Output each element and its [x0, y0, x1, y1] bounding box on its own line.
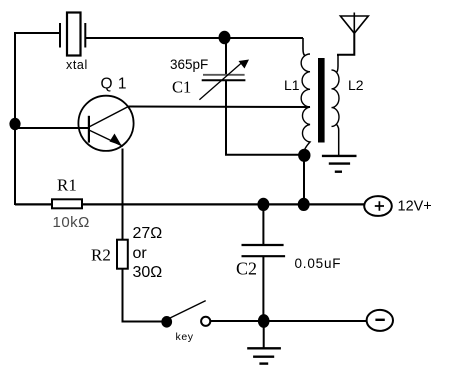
label Q1: [101, 76, 127, 93]
terminal: +12V supply terminal: [364, 196, 392, 216]
wire: R2 bottom to key: [123, 269, 164, 322]
label R1: [57, 176, 77, 195]
svg-text:R1: R1: [57, 176, 77, 195]
label xtal: [66, 58, 88, 72]
wire: Q1 emitter down to R2 (crosses rail, no connection): [122, 149, 124, 241]
svg-text:C2: C2: [236, 259, 257, 279]
svg-text:12V+: 12V+: [398, 199, 432, 215]
label 365pF: [170, 57, 208, 72]
label key: [176, 331, 194, 343]
label C2: [236, 259, 257, 279]
junction node: feed wire on +12V rail: [298, 198, 310, 211]
junction node: ground/C2 tap on bottom rail: [258, 314, 270, 328]
wire: C1 bottom to feed node: [226, 80, 304, 155]
wire: +12V rail node to C2 top plate: [262, 204, 264, 245]
wire: left vertical bus (crystal/base to +12V rail): [14, 32, 16, 205]
antenna: [340, 13, 368, 34]
svg-text:C1: C1: [172, 78, 191, 97]
C1 trimmer arrow: [199, 60, 249, 100]
wire: base node to Q1 base: [15, 127, 89, 129]
svg-text:27Ω: 27Ω: [133, 225, 163, 242]
wire: key to negative terminal (bottom rail): [210, 320, 366, 322]
svg-text:Q 1: Q 1: [101, 76, 127, 93]
label R2: [91, 246, 111, 265]
capacitor C2 plates: [242, 245, 286, 256]
wire: C2 bottom plate to bottom rail: [262, 256, 264, 321]
svg-text:or: or: [133, 245, 148, 262]
transformer core: [318, 58, 325, 143]
wire: top rail node to C1 top plate: [225, 38, 227, 75]
svg-text:L2: L2: [348, 77, 364, 93]
svg-text:L1: L1: [284, 77, 300, 93]
junction node: C2 tap on +12V rail: [257, 198, 269, 211]
wire: crystal to L1 top (top rail): [85, 37, 303, 39]
junction node: base node on left bus: [9, 118, 20, 130]
terminal: negative supply terminal: [367, 310, 393, 331]
svg-text:R2: R2: [91, 246, 111, 265]
junction node: C1 tap on top rail: [219, 31, 231, 45]
transistor Q1: [78, 96, 133, 151]
inductor L1 (primary winding): [301, 38, 310, 156]
label 12V+: [398, 199, 432, 215]
resistor R2: [117, 240, 128, 269]
wire: +12V rail: [15, 203, 365, 205]
variable capacitor C1 plates: [202, 75, 246, 81]
label 10kΩ (value of R1): [53, 214, 90, 231]
wire: bottom rail node to main ground: [263, 321, 265, 349]
label 27Ω or 30Ω (value of R2): [133, 225, 163, 281]
svg-text:10kΩ: 10kΩ: [53, 214, 90, 231]
junction node: L1 bottom / C1 / rail feed node: [298, 149, 310, 162]
label C1: [172, 78, 191, 97]
resistor R1: [52, 199, 82, 208]
label L2: [348, 77, 364, 93]
svg-text:30Ω: 30Ω: [133, 264, 163, 281]
svg-text:0.05uF: 0.05uF: [295, 256, 342, 271]
ground: antenna/L2 ground: [322, 156, 357, 172]
wire: antenna lead to L2 top: [338, 33, 354, 56]
wire: Q1 collector to L1 tap: [129, 106, 311, 109]
label L1: [284, 77, 300, 93]
svg-text:xtal: xtal: [66, 58, 88, 72]
inductor L2 (secondary winding): [332, 55, 340, 156]
wire: crystal left lead (top-left corner): [15, 32, 60, 34]
crystal XTAL: [60, 13, 85, 56]
key switch (key): [161, 301, 210, 328]
label 0.05uF (value of C2): [295, 256, 342, 271]
ground: main ground symbol: [247, 348, 281, 363]
wire: feed node down to +12V rail: [303, 156, 305, 205]
svg-text:365pF: 365pF: [170, 57, 208, 72]
svg-text:key: key: [176, 331, 194, 343]
